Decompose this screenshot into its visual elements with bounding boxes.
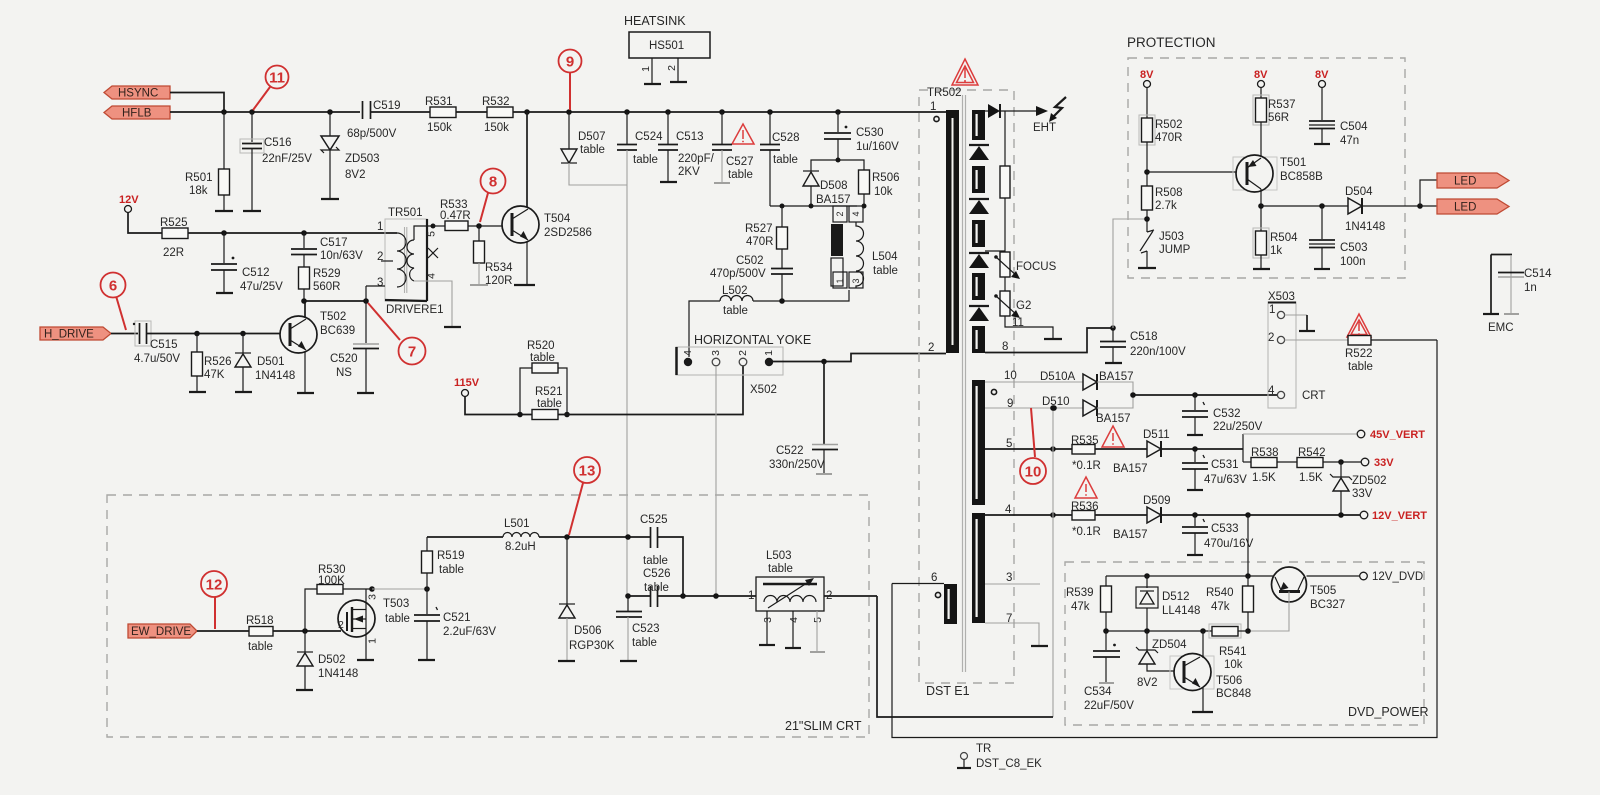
capacitor C517 10n/63V xyxy=(291,233,363,267)
svg-text:X502: X502 xyxy=(750,384,777,396)
inductor L502 table xyxy=(720,285,753,317)
svg-text:L503: L503 xyxy=(766,550,792,562)
supply 115V xyxy=(454,377,532,415)
svg-text:R519: R519 xyxy=(437,550,465,562)
capacitor C504 47n xyxy=(1309,121,1368,147)
svg-text:table: table xyxy=(768,563,793,575)
svg-text:C518: C518 xyxy=(1130,331,1158,343)
inductor L501 8.2uH xyxy=(427,518,539,553)
top rail inside box xyxy=(1106,575,1273,577)
ground under C532 xyxy=(1187,434,1203,436)
svg-text:R538: R538 xyxy=(1251,447,1279,459)
T503 source wire + ground xyxy=(365,629,367,661)
connector flag H_DRIVE xyxy=(40,327,111,341)
svg-text:C525: C525 xyxy=(640,514,668,526)
capacitor C520 NS xyxy=(330,301,379,393)
svg-text:56R: 56R xyxy=(1268,112,1289,124)
svg-text:R532: R532 xyxy=(482,96,510,108)
diode D512 LL4148 (SMD box) xyxy=(1136,576,1200,631)
svg-text:table: table xyxy=(439,564,464,576)
svg-text:C526: C526 xyxy=(643,568,671,580)
svg-text:C503: C503 xyxy=(1340,242,1368,254)
svg-text:8: 8 xyxy=(489,174,497,191)
svg-text:DRIVERE1: DRIVERE1 xyxy=(386,304,444,316)
svg-text:4: 4 xyxy=(1268,385,1275,397)
svg-text:D504: D504 xyxy=(1345,186,1373,198)
svg-text:10n/63V: 10n/63V xyxy=(320,250,363,262)
wire xyxy=(1095,448,1147,450)
capacitor C528 table xyxy=(760,112,800,206)
svg-text:150k: 150k xyxy=(427,122,452,134)
resistor R527 470R xyxy=(745,206,788,268)
wire C525 down to C526 rail xyxy=(658,537,684,596)
svg-text:NS: NS xyxy=(336,367,352,379)
capacitor C526 table (series) xyxy=(628,568,756,607)
resistor R534 120R xyxy=(474,226,514,287)
svg-text:R539: R539 xyxy=(1066,587,1094,599)
svg-text:C534: C534 xyxy=(1084,686,1112,698)
svg-text:68p/500V: 68p/500V xyxy=(347,128,397,140)
wire 115V rail to X502 pin2 xyxy=(558,366,743,415)
ground under D506 xyxy=(558,660,575,662)
svg-text:2.7k: 2.7k xyxy=(1155,200,1177,212)
resistor R538 1.5K xyxy=(1243,447,1279,484)
transistor T501 BC858B (PNP) xyxy=(1233,155,1323,192)
wire to T502 base xyxy=(147,333,282,335)
svg-text:table: table xyxy=(632,637,657,649)
svg-text:C520: C520 xyxy=(330,353,358,365)
svg-text:C517: C517 xyxy=(320,237,348,249)
wire to 12V_VERT terminal xyxy=(1161,514,1360,516)
svg-text:R534: R534 xyxy=(485,262,513,274)
warning triangle above TR502 xyxy=(952,59,978,85)
svg-text:J503: J503 xyxy=(1159,231,1184,243)
long vertical net wire (C524/D507 down to EW section) xyxy=(626,185,628,596)
supply 8V (left) xyxy=(1140,69,1154,118)
capacitor C532 22u/250V xyxy=(1182,395,1263,435)
svg-text:9: 9 xyxy=(566,54,574,71)
svg-text:EW_DRIVE: EW_DRIVE xyxy=(131,626,191,638)
node wire T502 collector / TR501 pin3 xyxy=(304,300,366,302)
svg-text:table: table xyxy=(644,582,669,594)
resistor R508 2.7k xyxy=(1142,186,1183,232)
svg-text:D509: D509 xyxy=(1143,495,1171,507)
resistor R541 10k xyxy=(1209,624,1248,671)
svg-text:table: table xyxy=(530,352,555,364)
svg-text:150k: 150k xyxy=(484,122,509,134)
svg-text:8V2: 8V2 xyxy=(345,169,365,181)
tap wire to focus divider xyxy=(985,250,1005,252)
svg-text:C533: C533 xyxy=(1211,523,1239,535)
svg-text:T501: T501 xyxy=(1280,157,1306,169)
connector flag HFLB xyxy=(104,106,170,120)
TR502 core lines xyxy=(962,95,964,672)
svg-text:R542: R542 xyxy=(1298,447,1326,459)
terminal 12V_DVD xyxy=(1360,571,1423,583)
svg-text:R536: R536 xyxy=(1071,501,1099,513)
svg-text:470R: 470R xyxy=(1155,132,1183,144)
svg-text:D501: D501 xyxy=(257,356,285,368)
svg-text:1N4148: 1N4148 xyxy=(255,370,295,382)
transistor T502 BC639 (NPN) xyxy=(280,311,355,353)
svg-text:33V: 33V xyxy=(1374,457,1394,469)
ground under C521 xyxy=(418,659,435,661)
svg-text:C502: C502 xyxy=(736,255,764,267)
svg-text:table: table xyxy=(723,305,748,317)
svg-text:C519: C519 xyxy=(373,100,401,112)
svg-text:D512: D512 xyxy=(1162,591,1190,603)
svg-text:100n: 100n xyxy=(1340,256,1366,268)
svg-text:10k: 10k xyxy=(874,186,893,198)
svg-text:R526: R526 xyxy=(204,356,232,368)
capacitor C525 table (series) xyxy=(640,514,668,567)
ground under D501 xyxy=(235,391,252,393)
svg-text:8V: 8V xyxy=(1140,69,1154,81)
callout 9 xyxy=(559,50,582,111)
diode D504 1N4148 xyxy=(1345,186,1420,233)
svg-text:3: 3 xyxy=(762,617,774,623)
45V rail: pin5 wire xyxy=(985,448,1072,450)
resistor R525 22R xyxy=(160,217,188,259)
wire HSYNC to HFLB node xyxy=(170,93,224,113)
wire EW_DRIVE to R518 xyxy=(197,630,249,632)
svg-text:H_DRIVE: H_DRIVE xyxy=(44,329,94,341)
svg-text:2: 2 xyxy=(928,342,934,354)
ground under D502 xyxy=(296,689,313,691)
transformer TR501 DRIVERE1 xyxy=(366,207,452,326)
wire to T503 gate xyxy=(273,630,341,632)
supply 12V xyxy=(119,194,162,233)
svg-text:1: 1 xyxy=(835,278,845,283)
resistor R532 150k xyxy=(482,96,513,134)
svg-text:BA157: BA157 xyxy=(816,194,851,206)
svg-text:X503: X503 xyxy=(1268,291,1295,303)
svg-text:2: 2 xyxy=(1268,332,1274,344)
svg-text:4: 4 xyxy=(426,273,438,279)
TR502 primary winding bar xyxy=(946,110,959,353)
svg-text:10k: 10k xyxy=(1224,659,1243,671)
ground under C520 xyxy=(357,392,374,394)
potentiometer FOCUS xyxy=(994,252,1056,279)
svg-text:1k: 1k xyxy=(1270,245,1282,257)
svg-text:220n/100V: 220n/100V xyxy=(1130,346,1186,358)
resistor R518 table xyxy=(246,615,274,653)
terminal TR / DST_C8_EK xyxy=(957,743,1042,770)
svg-text:R540: R540 xyxy=(1206,587,1234,599)
svg-text:R527: R527 xyxy=(745,223,773,235)
svg-text:2.2uF/63V: 2.2uF/63V xyxy=(443,626,496,638)
svg-text:BC639: BC639 xyxy=(320,325,355,337)
terminal bar under C527 xyxy=(714,182,730,184)
T506 collector wire xyxy=(1202,631,1204,658)
svg-text:R508: R508 xyxy=(1155,187,1183,199)
supply 8V (right) xyxy=(1315,69,1329,120)
svg-text:47k: 47k xyxy=(1211,601,1230,613)
capacitor C522 330n/250V xyxy=(769,362,838,475)
resistor R519 table xyxy=(422,537,465,589)
warning triangle above R522 xyxy=(1347,314,1371,337)
resistor R537 56R xyxy=(1253,95,1296,156)
terminal bar under R534 xyxy=(470,284,488,286)
T503 drain wire xyxy=(365,589,367,610)
zener diode ZD503 8V2 xyxy=(321,112,380,199)
svg-text:BA157: BA157 xyxy=(1096,413,1131,425)
svg-text:LL4148: LL4148 xyxy=(1162,605,1200,617)
wire snubber bottom rail xyxy=(770,205,857,207)
ground under C518 xyxy=(1105,362,1122,364)
warning triangle near R536 xyxy=(1075,477,1097,498)
svg-text:2: 2 xyxy=(737,350,749,356)
ground under C516 xyxy=(243,210,261,212)
svg-text:HSYNC: HSYNC xyxy=(118,88,158,100)
secondary phase dot near pin10 xyxy=(991,389,996,394)
svg-text:D508: D508 xyxy=(820,180,848,192)
svg-text:table: table xyxy=(385,613,410,625)
svg-text:R504: R504 xyxy=(1270,232,1298,244)
connector flag EW_DRIVE xyxy=(128,624,197,638)
svg-text:8V: 8V xyxy=(1254,69,1268,81)
svg-text:47u/63V: 47u/63V xyxy=(1204,474,1247,486)
wire HFLB main horizontal bus xyxy=(170,111,360,113)
wire 12V_VERT rail down into box xyxy=(1247,515,1249,576)
svg-text:D510: D510 xyxy=(1042,396,1070,408)
inductor L503 table (variable, in box) xyxy=(748,550,832,652)
svg-text:22R: 22R xyxy=(163,247,184,259)
svg-text:12V_DVD: 12V_DVD xyxy=(1372,571,1423,583)
resistor R539 47k xyxy=(1066,576,1112,631)
dashed box DVD_POWER xyxy=(1065,562,1424,725)
pin6 winding bar xyxy=(944,584,957,624)
svg-text:1: 1 xyxy=(763,350,775,356)
svg-text:1: 1 xyxy=(640,66,652,72)
svg-text:4: 4 xyxy=(682,350,694,356)
capacitor C519 (series on bus) xyxy=(347,100,401,140)
svg-text:C532: C532 xyxy=(1213,408,1241,420)
svg-text:T502: T502 xyxy=(320,311,346,323)
resistor R542 1.5K xyxy=(1277,447,1361,484)
capacitor C512 47u/25V (electrolytic) xyxy=(211,233,283,293)
resistor R502 470R xyxy=(1139,115,1183,186)
resistor R533 0.47R xyxy=(431,199,503,231)
capacitor C531 47u/63V xyxy=(1182,449,1247,490)
callout 10 xyxy=(1020,408,1046,484)
TR502 EHT secondary winding with integrated diodes xyxy=(969,110,989,353)
wire 12V rail to TR501 pin1 xyxy=(188,232,397,234)
svg-text:T506: T506 xyxy=(1216,675,1242,687)
resistor R540 47k xyxy=(1206,576,1254,631)
svg-text:2: 2 xyxy=(666,65,678,71)
svg-text:1: 1 xyxy=(748,590,754,602)
svg-text:1N4148: 1N4148 xyxy=(1345,221,1385,233)
capacitor C524 table xyxy=(617,112,663,185)
ground under R526 xyxy=(189,391,206,393)
33V terminal xyxy=(1361,457,1394,469)
svg-text:table: table xyxy=(1348,361,1373,373)
connector flag HSYNC xyxy=(104,86,170,100)
svg-text:R521: R521 xyxy=(535,386,563,398)
diode D511 BA157 xyxy=(1113,429,1170,475)
T505 base wire xyxy=(1248,592,1289,632)
TR502 primary phase dot xyxy=(934,116,939,121)
svg-text:HS501: HS501 xyxy=(649,40,684,52)
L503 return bottom wire xyxy=(877,596,1053,717)
X503 pin1 chassis stub xyxy=(1285,315,1315,331)
resistor R531 150k xyxy=(425,96,456,134)
svg-text:8: 8 xyxy=(1002,341,1008,353)
svg-text:3: 3 xyxy=(377,277,383,289)
svg-text:560R: 560R xyxy=(313,281,341,293)
svg-text:3: 3 xyxy=(1006,572,1012,584)
svg-text:C514: C514 xyxy=(1524,268,1552,280)
svg-text:HORIZONTAL YOKE: HORIZONTAL YOKE xyxy=(694,333,811,347)
transistor T505 BC327 (PNP) xyxy=(1272,567,1346,611)
svg-text:47k: 47k xyxy=(1071,601,1090,613)
T506 emitter wire + ground xyxy=(1202,688,1204,712)
callout 12 xyxy=(201,571,227,629)
svg-text:D506: D506 xyxy=(574,625,602,637)
resistor R521 table xyxy=(532,386,563,420)
ground under C531 xyxy=(1187,489,1203,491)
svg-text:4: 4 xyxy=(788,617,800,623)
svg-text:table: table xyxy=(873,265,898,277)
svg-text:TR: TR xyxy=(976,743,991,755)
svg-text:22u/250V: 22u/250V xyxy=(1213,421,1263,433)
HORIZONTAL YOKE connector X502 xyxy=(676,333,811,396)
diode D508 BA157 (parallel with R506) xyxy=(803,160,851,206)
svg-text:0.47R: 0.47R xyxy=(440,210,471,222)
diode D502 1N4148 xyxy=(297,631,358,690)
svg-text:D511: D511 xyxy=(1143,429,1170,441)
svg-text:R525: R525 xyxy=(160,217,188,229)
pin7 stub wire with bar xyxy=(985,623,1048,646)
ground under R504 xyxy=(1253,268,1270,270)
svg-text:470R: 470R xyxy=(746,236,774,248)
svg-text:2KV: 2KV xyxy=(678,166,700,178)
svg-text:DVD_POWER: DVD_POWER xyxy=(1348,705,1429,719)
svg-text:100K: 100K xyxy=(318,575,345,587)
svg-text:BC327: BC327 xyxy=(1310,599,1345,611)
svg-text:T503: T503 xyxy=(383,598,409,610)
diode D501 1N4148 xyxy=(235,334,295,393)
svg-text:D510A: D510A xyxy=(1040,371,1075,383)
svg-text:HFLB: HFLB xyxy=(122,108,152,120)
diode D507 table xyxy=(561,112,627,185)
svg-text:C527: C527 xyxy=(726,156,754,168)
svg-text:EMC: EMC xyxy=(1488,322,1514,334)
callout 11 xyxy=(253,66,289,111)
EHT bleeder resistor xyxy=(1000,111,1010,252)
svg-text:470p/500V: 470p/500V xyxy=(710,268,766,280)
svg-text:1u/160V: 1u/160V xyxy=(856,141,899,153)
zener diode ZD502 33V xyxy=(1330,462,1387,515)
resistor R530 100K xyxy=(305,564,372,631)
wire L503 pin2 to bottom return xyxy=(824,595,877,597)
jumper J503 xyxy=(1140,230,1191,268)
svg-text:R537: R537 xyxy=(1268,99,1296,111)
svg-text:10: 10 xyxy=(1004,370,1017,382)
terminal bar under C534 xyxy=(1099,682,1114,684)
svg-text:T505: T505 xyxy=(1310,585,1336,597)
pin6 wire xyxy=(892,583,944,585)
svg-text:5: 5 xyxy=(426,231,438,237)
T505 collector wire to 12V_DVD xyxy=(1307,575,1361,577)
ground under R501 xyxy=(215,210,233,212)
svg-text:BC848: BC848 xyxy=(1216,688,1251,700)
dashed box 21"SLIM CRT xyxy=(107,495,869,737)
wire X502 pin1 to TR502 pin2 xyxy=(773,354,946,362)
svg-text:DST_C8_EK: DST_C8_EK xyxy=(976,758,1042,770)
svg-text:C512: C512 xyxy=(242,267,270,279)
svg-text:C524: C524 xyxy=(635,131,663,143)
wire T503 drain node to R519/C521 node xyxy=(372,588,427,590)
resistor R501 18k xyxy=(185,112,230,211)
svg-text:2SD2586: 2SD2586 xyxy=(544,227,592,239)
T502 collector wire xyxy=(304,301,306,318)
base wire to T501 xyxy=(1147,171,1236,173)
callout 8 xyxy=(480,169,506,223)
svg-text:BA157: BA157 xyxy=(1113,529,1148,541)
svg-text:R535: R535 xyxy=(1071,435,1099,447)
svg-text:ZD502: ZD502 xyxy=(1352,475,1387,487)
svg-text:C515: C515 xyxy=(150,339,178,351)
svg-text:12V: 12V xyxy=(119,194,139,206)
resistor R522 table xyxy=(1345,336,1437,374)
svg-text:2: 2 xyxy=(835,211,845,216)
transistor T506 BC848 (NPN) xyxy=(1170,654,1251,701)
12V_VERT terminal xyxy=(1360,510,1427,522)
svg-text:470u/16V: 470u/16V xyxy=(1204,538,1254,550)
svg-text:22nF/25V: 22nF/25V xyxy=(262,153,312,165)
svg-text:RGP30K: RGP30K xyxy=(569,640,615,652)
svg-text:6: 6 xyxy=(931,572,937,584)
resistor R536 *0.1R xyxy=(1071,501,1101,538)
wire L502 right to L504 pins xyxy=(753,290,849,301)
svg-text:G2: G2 xyxy=(1016,300,1031,312)
svg-text:D507: D507 xyxy=(578,131,606,143)
svg-text:C516: C516 xyxy=(264,137,292,149)
diode D510 BA157 xyxy=(985,395,1133,425)
zener diode ZD504 8V2 xyxy=(1136,631,1187,689)
svg-text:table: table xyxy=(248,641,273,653)
svg-text:13: 13 xyxy=(579,463,596,480)
net riser joining pins 9/5/4 rails to L503 return xyxy=(1052,408,1054,717)
svg-text:R501: R501 xyxy=(185,172,213,184)
X503 pin2 wire to R522 xyxy=(1285,339,1348,341)
capacitor C518 220n/100V xyxy=(1100,328,1186,363)
ground under C504 xyxy=(1314,143,1330,145)
svg-text:1: 1 xyxy=(367,638,379,644)
capacitor C534 22uF/50V xyxy=(1084,631,1134,712)
svg-text:21"SLIM CRT: 21"SLIM CRT xyxy=(785,719,862,733)
svg-text:C528: C528 xyxy=(772,132,800,144)
svg-text:C521: C521 xyxy=(443,612,471,624)
svg-text:L501: L501 xyxy=(504,518,530,530)
pin8 wire to C518 node xyxy=(985,328,1113,353)
diode D509 BA157 xyxy=(1113,495,1171,541)
svg-text:22uF/50V: 22uF/50V xyxy=(1084,700,1134,712)
T501 collector wire xyxy=(1260,189,1262,231)
svg-text:CRT: CRT xyxy=(1302,390,1325,402)
capacitor C527 table xyxy=(712,112,754,183)
potentiometer G2 xyxy=(994,291,1031,329)
T504 emitter wire + bar xyxy=(526,241,528,285)
svg-text:C530: C530 xyxy=(856,127,884,139)
svg-text:220pF/: 220pF/ xyxy=(678,153,715,165)
svg-text:12: 12 xyxy=(206,577,223,594)
R522 return loop (pin6 net) xyxy=(892,340,1437,738)
transistor T503 table (MOSFET) xyxy=(338,594,410,644)
svg-text:table: table xyxy=(537,398,562,410)
